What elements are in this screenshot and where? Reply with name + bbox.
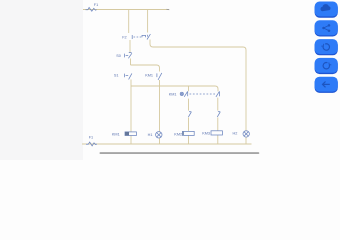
wire stub right from rail [147,10,149,33]
button redo [315,59,338,74]
contact KM1 right (KM3 branch) [219,91,221,96]
scrollbar thumb [100,152,260,154]
svg-text:KM1: KM1 [112,132,120,136]
svg-text:H1: H1 [148,133,153,137]
toolbar buttons [315,2,338,93]
icon share [322,24,330,32]
wire left vertical S0 to latch junction [130,59,132,66]
pushbutton S0 contact [124,54,126,58]
wire KM3 branch to coil [217,117,219,130]
wire KM2 branch to coil [188,117,190,131]
svg-text:KM2: KM2 [174,132,182,136]
svg-text:F1: F1 [89,136,93,140]
svg-text:H2: H2 [233,131,238,135]
svg-text:F1: F1 [94,3,98,7]
svg-text:F2: F2 [122,36,126,40]
wire KM3 branch mid [217,98,219,111]
wire KM1 coil feed [130,86,132,132]
wire latch branch horizontal [131,65,160,72]
breaker F1 top symbol [86,8,97,12]
wire below H2 to bottom rail [245,137,247,144]
contact KM1 latch [156,73,158,77]
svg-text:S0: S0 [116,54,121,58]
svg-text:KM1: KM1 [169,93,177,97]
coil KM3 [211,131,222,135]
wire bottom rail [82,143,252,145]
wire KM2 branch upper [188,86,190,91]
button share [315,21,338,36]
icon undo [321,44,329,50]
icon cloud [321,4,331,11]
mechanical link dashed [190,93,216,95]
wire below KM3 coil [217,135,219,144]
left off-canvas panel [0,0,83,160]
icon redo [323,63,331,69]
button back [315,78,338,93]
contact lower left on KM2 branch [189,111,191,113]
lamp H1 [156,132,162,138]
wire stub left from rail [128,10,130,34]
svg-text:KM1: KM1 [145,74,153,78]
wire KM2 branch mid [188,99,190,111]
button export [315,3,338,18]
coil KM2 [182,131,194,135]
wire lower junction horizontal to KM3 branch [131,86,218,91]
wire latch vertical to H1 [159,80,161,132]
coil KM1 [125,132,136,136]
wire below KM1 coil [130,136,132,144]
breaker F1 bottom symbol [86,142,97,146]
wire right pole down and feed to H2 [150,40,246,131]
wire below KM2 coil [188,136,190,144]
fuse F2 contact symbol [131,35,133,39]
end tick of top rail [167,8,170,10]
svg-text:KM3: KM3 [202,131,210,135]
button undo [315,40,338,55]
wire left vertical F2 to S0 [129,40,131,53]
contact lower right on KM3 branch [218,111,220,113]
icon back arrow [323,82,330,88]
wire S1 to lower junction [130,80,132,87]
wire below H1 to bottom rail [159,138,161,144]
wire top rail [83,9,169,11]
pushbutton S1 contact [124,74,126,78]
lamp H2 [243,131,249,137]
svg-text:S1: S1 [114,73,119,77]
contact KM1 left (KM2 branch) with linkage [180,92,183,95]
